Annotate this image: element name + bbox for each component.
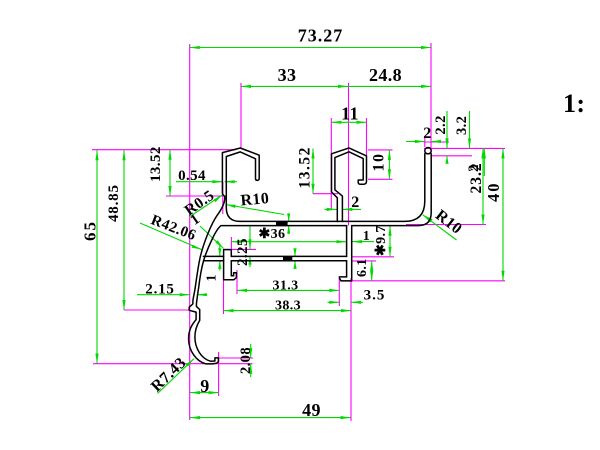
ext line middle hook peak x=348: [348, 83, 350, 226]
ext line leftmost profile x=189.7: [189, 44, 191, 420]
top wall top line + right R10 outer + bead stem: [240, 154, 425, 222]
svg-text:24.8: 24.8: [369, 65, 402, 85]
dim 1 web: [352, 241, 374, 243]
svg-text:6.1: 6.1: [355, 258, 370, 277]
dim 24.8: [348, 85, 431, 87]
dim 13.52 mid: [312, 149, 314, 194]
dim 73.27: [190, 47, 431, 49]
bead: [425, 148, 431, 154]
ext line y=155.8: [432, 155, 472, 157]
svg-text:3.5: 3.5: [364, 288, 386, 304]
ext line 23.2 bottom y=224.5: [406, 224, 486, 226]
leader R42.06: [140, 223, 202, 250]
ext line 10 bottom y=179.3: [368, 178, 393, 180]
dim 10: [388, 150, 390, 179]
dim 13.52 left: [169, 150, 171, 196]
svg-text:✱9.7: ✱9.7: [374, 225, 389, 256]
ext line *9.7 bottom y=256.8: [352, 256, 394, 258]
svg-text:2: 2: [466, 164, 482, 172]
dim 2.15: [137, 294, 190, 296]
ext line bead left x=424.8: [424, 136, 426, 147]
svg-text:2: 2: [423, 125, 431, 142]
svg-text:31.3: 31.3: [272, 279, 298, 294]
svg-text:2.2: 2.2: [433, 115, 449, 134]
svg-text:1:: 1:: [563, 89, 585, 118]
ext line curl lip top y=358: [219, 357, 253, 359]
ext line bead mid y=148.4: [424, 147, 505, 149]
svg-text:2.15: 2.15: [145, 282, 174, 298]
leader R0.5: [190, 195, 222, 217]
web left face below wall: [346, 261, 348, 277]
ext line 13.52L bottom y=196: [166, 195, 225, 197]
dim 1 leg (2nd wall thickness left) x=219.8: [219, 245, 221, 256]
leader R10 left: [226, 205, 284, 215]
left wall outer face + curl + lip: [189, 196, 225, 364]
dim 6.1: [371, 261, 373, 281]
left leg + foot with lip: [224, 250, 237, 280]
dim 2.2: [446, 111, 448, 148]
svg-text:0.54: 0.54: [178, 168, 206, 184]
ext line 10 top y=149.9: [368, 149, 393, 151]
ext line 38.3 left x=223.5: [223, 280, 225, 314]
dim 2.08: [250, 344, 252, 358]
svg-text:73.27: 73.27: [298, 26, 344, 46]
dim 23.2: [482, 148, 484, 224]
ext line 11 right x=366.5: [366, 118, 368, 156]
svg-text:65: 65: [81, 220, 100, 241]
ext line 0.54 x=224.7: [222, 182, 224, 214]
dim 33: [241, 85, 348, 87]
dim thickness top wall x=288.7: [288, 214, 290, 222]
second wall bottom line: [231, 260, 346, 262]
svg-text:2: 2: [351, 194, 359, 211]
ext line 9 right x=218.6: [218, 352, 220, 396]
ext line 31.3 right x=339.3: [338, 278, 340, 306]
section mark bar on top wall: [276, 221, 288, 225]
dim 11: [331, 121, 366, 123]
svg-text:1: 1: [363, 229, 370, 244]
svg-text:1: 1: [205, 274, 220, 281]
dim 38.3: [224, 310, 352, 312]
svg-text:10: 10: [371, 153, 388, 172]
ext line *36 left leg face x=229.6: [230, 237, 232, 251]
ext line left hook peak x=241: [240, 83, 242, 148]
dim 3.5: [328, 301, 340, 303]
leader 1 diag: [200, 226, 224, 249]
ext line bead top y=142: [424, 141, 450, 143]
ext line 6.1 top y=260.9: [352, 260, 376, 262]
ext line leg stub top y=249.4: [224, 248, 257, 250]
svg-text:48.85: 48.85: [106, 184, 122, 222]
web/foot right face: [339, 226, 351, 281]
ext line 31.3 left x=237: [236, 270, 238, 294]
dim 2.25: [249, 227, 251, 250]
dim 0.54: [176, 181, 222, 183]
dim 31.3: [237, 289, 339, 291]
dim 48.85: [123, 150, 125, 310]
dim *9.7: [389, 226, 391, 257]
dim 9: [190, 392, 219, 394]
dim 2 mid hook: [325, 208, 337, 210]
ext line 49 right x=351: [350, 278, 352, 421]
section mark bar on second wall: [283, 256, 292, 261]
svg-text:✱36: ✱36: [259, 227, 286, 242]
ext line 48.85 bottom y=310: [124, 309, 190, 311]
svg-text:40: 40: [484, 182, 503, 203]
top wall bottom line + right inner fillet: [352, 154, 432, 226]
svg-text:3.2: 3.2: [454, 116, 470, 135]
leader R7.43: [158, 359, 195, 394]
top wall bottom line left + left wall inner face: [195, 226, 347, 362]
dim 2 right: [483, 148, 485, 176]
web left face above wall: [346, 226, 348, 257]
svg-text:2.25: 2.25: [235, 238, 251, 266]
svg-text:13.52: 13.52: [148, 146, 164, 182]
ext line top ref y=149.7: [92, 149, 236, 151]
svg-text:33: 33: [278, 65, 297, 85]
second wall top line: [231, 255, 346, 257]
dim 40: [502, 148, 504, 280]
middle hook: [332, 148, 367, 222]
svg-text:11: 11: [341, 104, 359, 124]
dim 65: [96, 150, 98, 363]
ext line 65 bottom y=363.7: [93, 363, 253, 365]
dim 3.2: [469, 111, 471, 148]
ext line 13.52M bottom y=193.7: [313, 193, 338, 195]
second wall left segments: [203, 255, 223, 257]
dim thickness 2nd wall x=295: [294, 249, 296, 257]
ext line right bead x=431: [430, 43, 432, 155]
ext line foot bottom y=280.8: [341, 280, 505, 282]
svg-text:9: 9: [200, 376, 209, 396]
svg-text:38.3: 38.3: [275, 299, 301, 314]
dim 2 bead: [406, 141, 425, 143]
leader R10 right: [423, 215, 457, 240]
svg-text:49: 49: [302, 400, 321, 420]
dim *36: [231, 241, 346, 243]
svg-text:R10: R10: [240, 190, 270, 209]
ext line 11 left x=331.3: [330, 118, 332, 209]
svg-text:2.08: 2.08: [238, 347, 254, 374]
svg-text:13.52: 13.52: [297, 146, 314, 188]
left hook: [222, 148, 259, 221]
dim 49: [190, 417, 351, 419]
